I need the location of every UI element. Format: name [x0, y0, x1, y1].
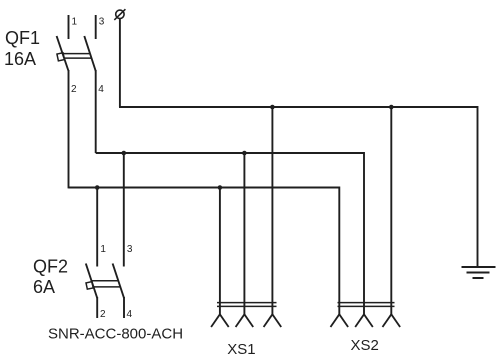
svg-text:XS1: XS1 — [227, 341, 255, 358]
svg-text:1: 1 — [100, 244, 106, 255]
svg-text:SNR-ACC-800-ACH: SNR-ACC-800-ACH — [48, 326, 183, 343]
svg-text:3: 3 — [127, 244, 133, 255]
svg-text:4: 4 — [98, 84, 104, 95]
svg-text:6A: 6A — [33, 277, 55, 297]
svg-text:QF1: QF1 — [5, 28, 40, 48]
svg-text:2: 2 — [71, 84, 77, 95]
svg-text:1: 1 — [72, 16, 78, 27]
svg-text:XS2: XS2 — [351, 337, 379, 354]
svg-text:4: 4 — [127, 309, 133, 320]
svg-text:16A: 16A — [4, 49, 36, 69]
svg-text:QF2: QF2 — [33, 257, 68, 277]
svg-text:2: 2 — [100, 309, 106, 320]
svg-text:3: 3 — [99, 16, 105, 27]
